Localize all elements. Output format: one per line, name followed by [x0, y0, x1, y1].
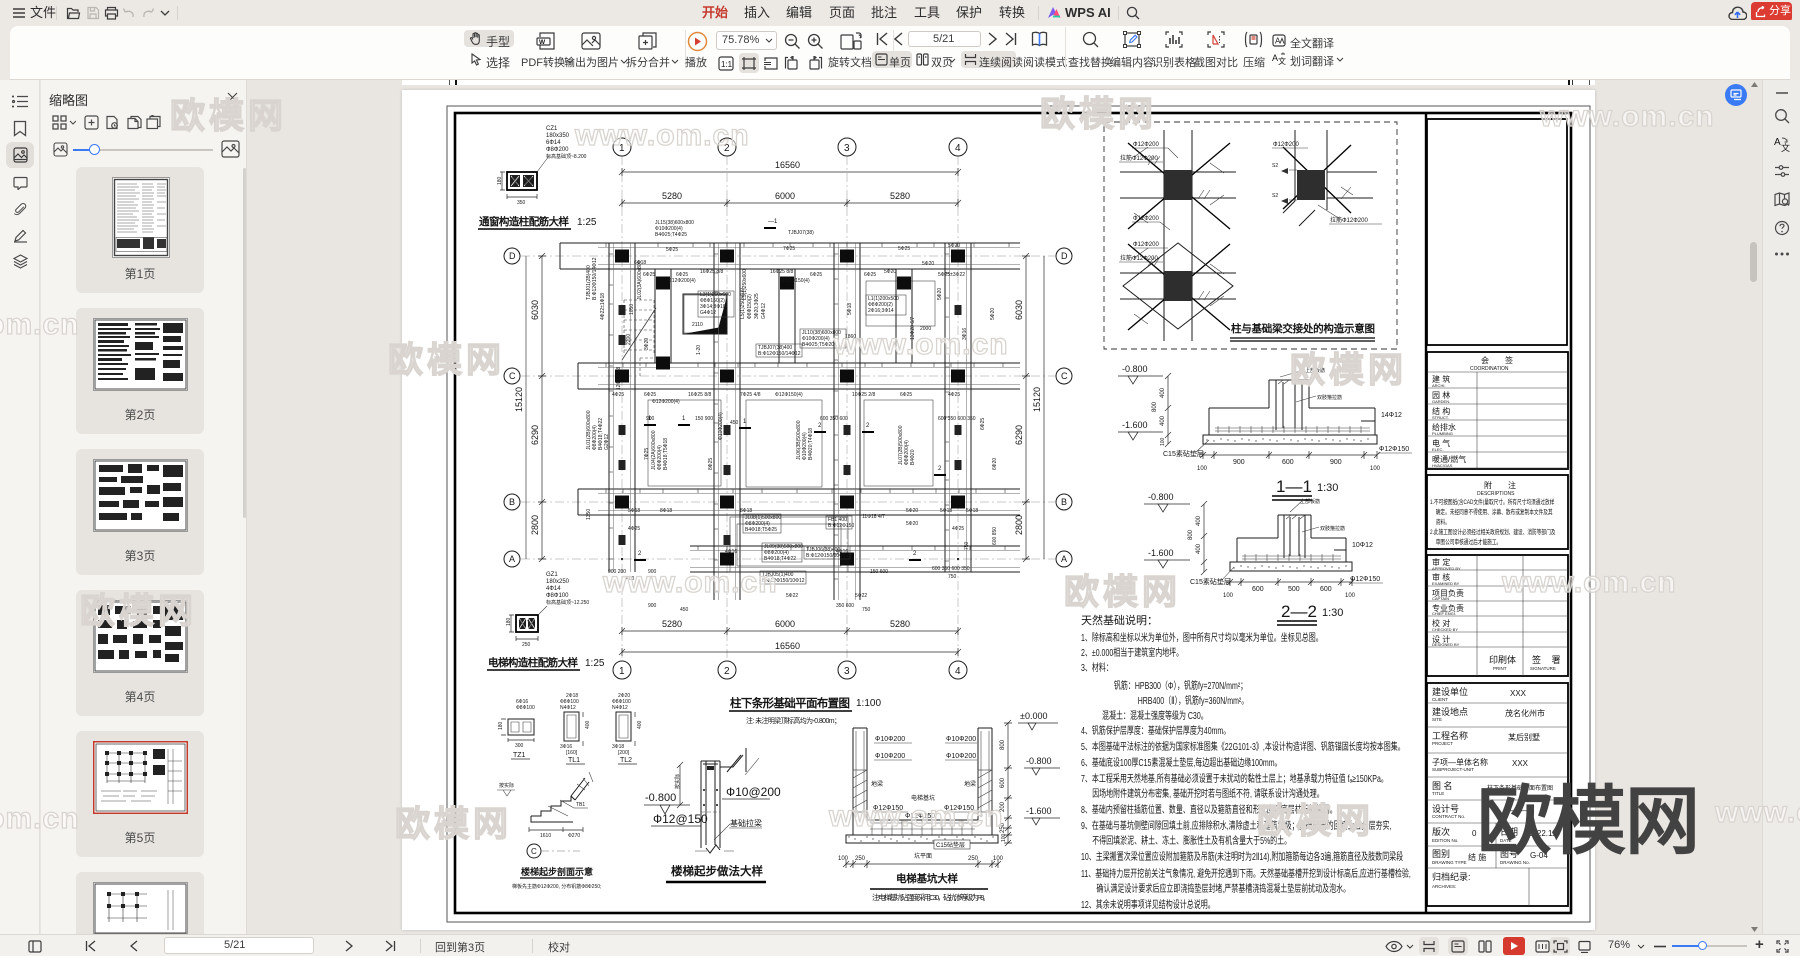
svg-text:上部板筋: 上部板筋 [1300, 498, 1320, 505]
svg-text:Ф10Ф200: Ф10Ф200 [946, 736, 976, 743]
title block: approval table [1427, 555, 1568, 676]
svg-text:9、在基础与基坑侧壁间隙回填土前,应排除积水,清除虚土和建筑: 9、在基础与基坑侧壁间隙回填土前,应排除积水,清除虚土和建筑垃圾；基础周围的回填… [1081, 819, 1392, 832]
svg-text:6Ф25: 6Ф25 [644, 392, 656, 398]
section 2-2 footing [1144, 492, 1383, 625]
svg-text:ELEC.: ELEC. [1432, 447, 1444, 452]
svg-text:B: B [509, 497, 515, 507]
svg-text:基础拉梁: 基础拉梁 [730, 818, 762, 828]
svg-text:5280: 5280 [662, 619, 682, 629]
bottom dimensions 5280 6000 5280 [619, 619, 961, 635]
svg-text:5280: 5280 [890, 191, 910, 201]
svg-text:TITLE: TITLE [1432, 791, 1444, 796]
thumbnails [76, 167, 204, 293]
svg-text:梯板先主筋Ф12Ф200, 分布钒筋Ф8Ф250;: 梯板先主筋Ф12Ф200, 分布钒筋Ф8Ф250; [512, 883, 601, 890]
svg-text:5Ф20: 5Ф20 [906, 521, 918, 527]
svg-text:5Ф25±3Ф22: 5Ф25±3Ф22 [938, 272, 965, 278]
natural foundation notes [1081, 613, 1411, 910]
axis bubbles left D C B A [504, 248, 520, 264]
svg-text:400: 400 [1196, 543, 1202, 554]
svg-text:4Ф14: 4Ф14 [546, 586, 561, 592]
svg-text:6290: 6290 [530, 425, 540, 445]
svg-text:Ф12Ф200: Ф12Ф200 [1273, 142, 1299, 148]
svg-text:4Ф16: 4Ф16 [725, 549, 737, 555]
svg-text:B: B [1061, 497, 1067, 507]
svg-text:XXX: XXX [1510, 689, 1527, 698]
svg-text:180: 180 [498, 721, 504, 730]
svg-text:印刷体: 印刷体 [1489, 654, 1516, 665]
svg-text:文: 文 [1781, 142, 1790, 152]
svg-text:3、材料：: 3、材料： [1081, 661, 1113, 674]
svg-text:6Ф20: 6Ф20 [992, 458, 998, 470]
svg-text:版次: 版次 [1432, 826, 1450, 837]
svg-text:注: 电梯基坑砧强度采用C30，砧抗渗等级为P8。: 注: 电梯基坑砧强度采用C30，砧抗渗等级为P8。 [872, 892, 990, 902]
svg-text:900 200: 900 200 [608, 569, 626, 575]
svg-text:900: 900 [648, 569, 657, 575]
svg-text:2: 2 [938, 466, 942, 472]
svg-text:3Ф16: 3Ф16 [962, 328, 968, 340]
svg-text:CAPTAIN: CAPTAIN [1432, 596, 1449, 601]
svg-text:Ф12Ф200(4): Ф12Ф200(4) [668, 278, 696, 284]
svg-text:Ф8Ф200: Ф8Ф200 [546, 147, 569, 153]
svg-text:APPROVED BY: APPROVED BY [1432, 566, 1461, 571]
svg-text:EDITION No.: EDITION No. [1432, 838, 1459, 843]
svg-text:工程名称: 工程名称 [1432, 730, 1468, 741]
vertical axis grid lines [621, 156, 623, 661]
svg-text:地梁: 地梁 [871, 780, 883, 788]
svg-text:2800: 2800 [1014, 515, 1024, 535]
svg-text:6Ф25: 6Ф25 [643, 272, 655, 278]
svg-text:150 600: 150 600 [870, 569, 888, 575]
svg-text:5Ф20: 5Ф20 [884, 269, 896, 275]
svg-text:2: 2 [818, 423, 822, 429]
svg-text:600 350 600: 600 350 600 [820, 416, 848, 422]
svg-text:-0.800: -0.800 [645, 792, 676, 804]
title: elevator pit detail [870, 872, 990, 902]
svg-text:SUBPROJECT-UNIT: SUBPROJECT-UNIT [1432, 767, 1474, 772]
svg-text:天然基础说明：: 天然基础说明： [1081, 613, 1158, 627]
title block: logo box [1427, 119, 1567, 345]
svg-text:6Ф14: 6Ф14 [546, 140, 561, 146]
svg-text:180: 180 [506, 617, 512, 626]
svg-text:拉筋Ф12Ф200: 拉筋Ф12Ф200 [1120, 254, 1158, 262]
svg-text:TB1: TB1 [576, 802, 585, 808]
svg-text:Ф10Ф200: Ф10Ф200 [875, 753, 905, 760]
svg-text:5Ф20: 5Ф20 [937, 288, 943, 300]
svg-text:3Ф20;3Ф25: 3Ф20;3Ф25 [754, 293, 760, 319]
svg-text:B4Ф20: B4Ф20 [910, 449, 916, 465]
svg-text:100: 100 [1160, 437, 1166, 446]
tie beam TL2 [612, 693, 643, 764]
svg-text:600: 600 [1282, 459, 1294, 466]
section cut marks in plan [634, 228, 946, 560]
svg-text:会签: 会签 [1481, 355, 1529, 365]
svg-text:8、基础内预留柱插筋位置、数量、直径以及箍筋直径和形式应与底: 8、基础内预留柱插筋位置、数量、直径以及箍筋直径和形式应与底层柱配筋相同。 [1081, 803, 1337, 816]
svg-text:400: 400 [585, 720, 591, 729]
svg-text:6Ф25: 6Ф25 [864, 272, 876, 278]
rebar tick marks along beams [606, 243, 1009, 591]
svg-text:180x350: 180x350 [546, 133, 570, 139]
svg-text:A: A [1061, 554, 1067, 564]
svg-text:2: 2 [913, 551, 917, 557]
svg-text:文: 文 [1278, 56, 1286, 65]
tabs [702, 0, 728, 26]
right dimension chain [1014, 253, 1030, 562]
PDF convert [536, 31, 558, 51]
left dimension chain 6030 6290 2800 [530, 253, 546, 562]
svg-text:10、主梁搬置次梁位置应设附加箍筋及吊筋(未注明时为2Ⅱ14: 10、主梁搬置次梁位置应设附加箍筋及吊筋(未注明时为2Ⅱ14),附加箍筋每边各3… [1081, 850, 1403, 863]
svg-text:1350: 1350 [586, 509, 592, 520]
svg-text:4Ф25: 4Ф25 [952, 526, 964, 532]
dashed box: column-foundation beam connection details [1104, 122, 1397, 349]
svg-text:双肢箍拉筋: 双肢箍拉筋 [1317, 394, 1342, 401]
svg-text:±0.000: ±0.000 [1020, 711, 1047, 721]
svg-text:800: 800 [1000, 739, 1006, 750]
svg-text:4: 4 [955, 666, 961, 677]
svg-text:混凝土：混凝土强度等级为 C30。: 混凝土：混凝土强度等级为 C30。 [1102, 709, 1208, 722]
svg-text:PRINT: PRINT [1493, 666, 1507, 671]
svg-text:400: 400 [1160, 415, 1166, 426]
svg-text:4Ф25: 4Ф25 [628, 526, 640, 532]
svg-text:坑平面: 坑平面 [914, 852, 932, 860]
svg-text:1: 1 [619, 143, 625, 154]
svg-text:Ф12Ф200(4): Ф12Ф200(4) [652, 399, 680, 405]
edit content [1123, 31, 1141, 48]
svg-text:DRAWING TYPE: DRAWING TYPE [1432, 860, 1467, 865]
svg-text:G4Ф12: G4Ф12 [761, 303, 767, 319]
svg-text:地梁: 地梁 [964, 780, 976, 788]
compress [1244, 31, 1263, 48]
svg-text:因场地附件建筑分布密集, 基础开挖时若与图纸不符, 请联系设: 因场地附件建筑分布密集, 基础开挖时若与图纸不符, 请联系设计沟通处理。 [1092, 787, 1324, 800]
svg-text:8Ф18: 8Ф18 [660, 508, 672, 514]
svg-text:100: 100 [1001, 833, 1007, 842]
svg-text:ARCHIVES:: ARCHIVES: [1432, 884, 1456, 889]
svg-text:C: C [509, 371, 516, 381]
top dimension 16560 [619, 160, 961, 176]
svg-text:4Ф25: 4Ф25 [612, 392, 624, 398]
svg-text:200: 200 [1000, 801, 1006, 812]
horizontal axis grid lines [521, 255, 1055, 257]
svg-text:400: 400 [626, 576, 635, 582]
svg-text:归档纪录:: 归档纪录: [1432, 871, 1471, 882]
screenshot compare [1207, 31, 1225, 48]
svg-text:CZ1: CZ1 [546, 126, 558, 132]
svg-text:100: 100 [1345, 593, 1356, 599]
svg-text:标高基础顶~8.200: 标高基础顶~8.200 [546, 153, 587, 160]
title block column divider [1425, 113, 1427, 913]
svg-text:6Ф25: 6Ф25 [980, 418, 986, 430]
svg-text:6290: 6290 [1014, 425, 1024, 445]
svg-text:1: 1 [619, 666, 625, 677]
stair flight dashed outline [622, 300, 656, 376]
title block: project info table [1427, 683, 1568, 906]
intermediate beam right wing [896, 269, 912, 363]
svg-text:Ф270: Ф270 [568, 833, 580, 839]
translate group [1272, 34, 1286, 47]
svg-text:附注: 附注 [1484, 480, 1532, 490]
svg-text:B4Ф18;T5Ф18: B4Ф18;T5Ф18 [663, 438, 669, 470]
svg-text:-1.600: -1.600 [1122, 420, 1148, 430]
svg-text:L5(1)250x600: L5(1)250x600 [742, 269, 748, 300]
svg-text:800: 800 [1188, 529, 1194, 540]
svg-text:A: A [1774, 137, 1781, 148]
svg-text:100: 100 [1223, 593, 1234, 599]
svg-text:柱下条形基础平面布置图: 柱下条形基础平面布置图 [730, 696, 850, 710]
svg-text:1: 1 [682, 416, 686, 422]
svg-text:5Ф22: 5Ф22 [855, 593, 867, 599]
svg-text:6000: 6000 [775, 619, 795, 629]
share button [1751, 2, 1792, 22]
svg-text:5Ф18: 5Ф18 [847, 303, 853, 315]
svg-text:600 350 600 350: 600 350 600 350 [938, 416, 976, 422]
column detail GZ1 (elevator constructional column) [506, 572, 589, 648]
svg-text:5Ф18: 5Ф18 [940, 508, 952, 514]
elevator pit inner lines [737, 524, 841, 566]
svg-text:7、本工程采用天然地基,所有基础必须设置于未扰动的黏性土层上: 7、本工程采用天然地基,所有基础必须设置于未扰动的黏性土层上；地基承载力特征值 … [1081, 772, 1388, 785]
svg-text:C15砧垫层: C15砧垫层 [936, 841, 965, 849]
plan title [729, 696, 881, 725]
svg-text:16Ф25 8/8: 16Ф25 8/8 [700, 269, 723, 275]
title: elevator column detail [487, 656, 605, 670]
svg-text:800: 800 [1152, 401, 1158, 412]
svg-text:楼梯起步做法大样: 楼梯起步做法大样 [671, 864, 764, 878]
cloud upload [1728, 4, 1747, 21]
svg-text:6Ф25: 6Ф25 [810, 272, 822, 278]
svg-text:10Ф25 2/8: 10Ф25 2/8 [852, 392, 875, 398]
svg-text:900: 900 [1233, 459, 1245, 466]
svg-text:上部板筋: 上部板筋 [1305, 367, 1325, 374]
play [687, 31, 708, 52]
svg-text:400: 400 [1160, 387, 1166, 398]
zoom out / in [784, 33, 801, 50]
svg-text:13Ф20 6/7: 13Ф20 6/7 [910, 317, 916, 340]
inner room rectangles [684, 295, 726, 333]
strip foundation beams: D C B A rows [598, 243, 1020, 269]
svg-text:按实际: 按实际 [674, 774, 681, 789]
svg-text:柱与基础梁交接处的构造示意图: 柱与基础梁交接处的构造示意图 [1231, 322, 1375, 335]
svg-text:1860: 1860 [845, 334, 856, 340]
svg-text:5Ф25: 5Ф25 [898, 246, 910, 252]
svg-text:180: 180 [497, 176, 503, 185]
axis bubbles top 1-4 [613, 138, 631, 156]
svg-text:250: 250 [855, 856, 866, 862]
svg-text:4Ф16: 4Ф16 [836, 549, 848, 555]
svg-text:8Ф18: 8Ф18 [740, 508, 752, 514]
bottom dimension 16560 [619, 641, 961, 656]
svg-text:2800: 2800 [530, 515, 540, 535]
svg-text:楼梯起步剖面示意: 楼梯起步剖面示意 [521, 866, 593, 877]
title block: coordination table [1427, 352, 1568, 469]
svg-text:建设单位: 建设单位 [1432, 686, 1468, 697]
svg-text:茂名化州市: 茂名化州市 [1505, 708, 1545, 718]
svg-text:15120: 15120 [514, 387, 524, 412]
zoom group [716, 31, 777, 50]
svg-text:2、±0.000相当于建筑室内地坪。: 2、±0.000相当于建筑室内地坪。 [1081, 646, 1183, 659]
svg-text:1、除标高和坐标以米为单位外，图中所有尺寸均以毫米为单位。坐: 1、除标高和坐标以米为单位外，图中所有尺寸均以毫米为单位。坐标见总图。 [1081, 631, 1323, 644]
svg-text:750: 750 [964, 541, 970, 550]
svg-text:GZ1: GZ1 [546, 572, 558, 578]
title block: descriptions box [1427, 475, 1568, 906]
svg-text:HVAC/GAS: HVAC/GAS [1432, 463, 1453, 468]
svg-text:2: 2 [866, 423, 870, 429]
svg-text:G2Ф12: G2Ф12 [604, 434, 610, 450]
svg-text:CHIEF ENGI.: CHIEF ENGI. [1432, 611, 1456, 616]
svg-text:GARDEN.: GARDEN. [1432, 399, 1450, 404]
svg-text:B4Ф25;T5Ф20: B4Ф25;T5Ф20 [802, 342, 834, 348]
svg-text:600 350 600 350: 600 350 600 350 [932, 566, 970, 572]
svg-text:500: 500 [1288, 586, 1300, 593]
svg-text:B4Ф18;T5Ф25: B4Ф18;T5Ф25 [745, 527, 777, 533]
svg-text:15120: 15120 [1032, 387, 1042, 412]
svg-text:1:100: 1:100 [856, 698, 881, 709]
svg-text:6030: 6030 [1014, 300, 1024, 320]
svg-text:1050: 1050 [629, 304, 635, 315]
svg-text:[160]: [160] [566, 750, 578, 756]
svg-text:900: 900 [1330, 459, 1342, 466]
svg-text:Ф12Ф150: Ф12Ф150 [873, 805, 903, 812]
svg-text:1—1: 1—1 [1276, 477, 1312, 496]
svg-text:JL02(3A)600x800: JL02(3A)600x800 [637, 260, 643, 300]
right side [1385, 940, 1403, 953]
leader boxes around some labels [698, 291, 906, 584]
svg-text:Ф12Ф150: Ф12Ф150 [1379, 446, 1409, 453]
svg-text:Ф12Ф200: Ф12Ф200 [1133, 216, 1159, 222]
svg-text:CHECKED BY: CHECKED BY [1432, 627, 1458, 632]
axis bubbles bottom 1-4 [613, 661, 631, 679]
svg-text:1610: 1610 [540, 833, 551, 839]
rotated beam label texts [586, 257, 998, 550]
svg-text:注: 未注明梁顶标高均为-0.800m；: 注: 未注明梁顶标高均为-0.800m； [746, 716, 841, 725]
svg-text:3: 3 [844, 143, 850, 154]
svg-text:250: 250 [522, 642, 531, 648]
svg-text:确认满足设计要求后应立即浇捣垫层封堵,严禁基槽浇捣混凝土垫层: 确认满足设计要求后应立即浇捣垫层封堵,严禁基槽浇捣混凝土垫层前扰动及泡水。 [1096, 882, 1350, 895]
svg-text:2000: 2000 [920, 326, 931, 332]
svg-text:750: 750 [948, 574, 957, 580]
svg-text:Ф12Ф150(4): Ф12Ф150(4) [782, 278, 810, 284]
detail: corner intersection top-right [1283, 130, 1377, 226]
column detail CZ1 (window constructional column) [497, 126, 587, 206]
dashed box title [1230, 322, 1375, 341]
svg-text:HRB400（Ⅱ），钒筋fy=360N/mm²。: HRB400（Ⅱ），钒筋fy=360N/mm²。 [1138, 694, 1249, 707]
svg-text:拉筋Ф12Ф200: 拉筋Ф12Ф200 [1120, 154, 1158, 162]
svg-text:100: 100 [838, 856, 849, 862]
svg-text:-0.800: -0.800 [1026, 756, 1052, 766]
svg-text:C: C [531, 847, 537, 856]
svg-text:16Ф25 8/8: 16Ф25 8/8 [688, 392, 711, 398]
svg-text:建设地点: 建设地点 [1432, 706, 1468, 717]
svg-text:PLUMBING: PLUMBING [1432, 431, 1453, 436]
svg-text:5Ф25: 5Ф25 [666, 247, 678, 253]
svg-text:5、本图基础平法标注的依据为国家标准图集《22G101-3》: 5、本图基础平法标注的依据为国家标准图集《22G101-3》,本设计构造详图、钒… [1081, 740, 1405, 753]
svg-text:B:Ф12Ф150/14Ф12: B:Ф12Ф150/14Ф12 [592, 257, 598, 300]
svg-text:审图公司审核通过后才能施工。: 审图公司审核通过后才能施工。 [1436, 537, 1501, 546]
svg-text:5Ф20: 5Ф20 [948, 243, 960, 249]
svg-text:B4Ф25;T4Ф25: B4Ф25;T4Ф25 [655, 232, 687, 238]
intermediate beam between axes (stair shaft wall) [655, 269, 671, 363]
svg-text:Ф10Ф200: Ф10Ф200 [946, 753, 976, 760]
title: stair start practice [666, 864, 766, 882]
svg-text:150 900: 150 900 [695, 416, 713, 422]
svg-text:2200: 2200 [626, 334, 632, 345]
svg-text:双肢箍拉筋: 双肢箍拉筋 [1320, 525, 1345, 532]
svg-text:7Ф25 4/8: 7Ф25 4/8 [740, 392, 761, 398]
svg-text:B:Ф12Ф150: B:Ф12Ф150 [828, 523, 854, 529]
find/replace [1082, 31, 1099, 48]
svg-text:-0.800: -0.800 [1122, 364, 1148, 374]
svg-text:100: 100 [1370, 466, 1381, 472]
svg-text:100: 100 [993, 856, 1004, 862]
svg-text:12Ф18 4/8: 12Ф18 4/8 [616, 367, 622, 390]
svg-text:C: C [1061, 371, 1068, 381]
svg-text:Ф10Ф200(4): Ф10Ф200(4) [718, 412, 724, 440]
svg-text:PROJECT: PROJECT [1432, 741, 1453, 746]
svg-text:D: D [1061, 251, 1068, 261]
svg-text:1:30: 1:30 [1317, 482, 1338, 494]
svg-text:SIGNATURE: SIGNATURE [1530, 666, 1556, 671]
strip foundation beams: axis 1 2 3 4 columns [609, 243, 635, 572]
svg-text:750: 750 [862, 607, 871, 613]
svg-text:100: 100 [1197, 466, 1208, 472]
svg-text:16Ф25 8/8: 16Ф25 8/8 [770, 269, 793, 275]
stair start section sketch [497, 772, 593, 858]
sheet outer thin frame [447, 106, 1590, 922]
beam inner face lines [598, 243, 1020, 600]
svg-text:N4Ф12: N4Ф12 [560, 705, 576, 711]
svg-text:250: 250 [1000, 822, 1006, 833]
svg-text:S2: S2 [1272, 193, 1278, 199]
svg-text:Ф12Ф150(4): Ф12Ф150(4) [775, 392, 803, 398]
svg-text:2: 2 [638, 551, 642, 557]
svg-text:6、基础底设100厚C15素混凝土垫层,每边超出基础边缘10: 6、基础底设100厚C15素混凝土垫层,每边超出基础边缘100mm。 [1081, 756, 1282, 769]
tie beam TL1 [560, 693, 591, 764]
svg-text:TL2: TL2 [620, 757, 632, 764]
svg-text:1:25: 1:25 [577, 217, 597, 228]
beam overhang left of axis 1 at rows D C B [560, 243, 609, 269]
svg-text:12、其余未说明事项详见结构设计总说明。: 12、其余未说明事项详见结构设计总说明。 [1081, 898, 1215, 911]
svg-text:CLIENT: CLIENT [1432, 697, 1448, 702]
svg-text:4: 4 [955, 143, 961, 154]
svg-text:8Ф25: 8Ф25 [708, 458, 714, 470]
svg-text:6Ф25: 6Ф25 [900, 392, 912, 398]
svg-text:通窗构造柱配筋大样: 通窗构造柱配筋大样 [479, 215, 570, 228]
svg-text:2110: 2110 [692, 322, 703, 328]
svg-text:STRUCT.: STRUCT. [1432, 415, 1449, 420]
svg-text:2—2: 2—2 [1281, 602, 1317, 621]
svg-text:450: 450 [730, 420, 739, 426]
svg-text:350: 350 [517, 200, 526, 206]
svg-text:16560: 16560 [775, 160, 800, 170]
solid black wedge (section cut of stair landing beam) [717, 296, 727, 333]
svg-text:5Ф18: 5Ф18 [966, 508, 978, 514]
top dimensions 5280 6000 5280 [619, 191, 961, 207]
svg-text:Ф12Ф150: Ф12Ф150 [944, 805, 974, 812]
svg-text:1.不可按图纸(含CAD文件)量取尺寸。所有尺寸均须通过放样: 1.不可按图纸(含CAD文件)量取尺寸。所有尺寸均须通过放样 [1430, 497, 1555, 506]
svg-text:400: 400 [1196, 515, 1202, 526]
svg-text:10Ф12: 10Ф12 [1352, 542, 1373, 549]
svg-text:—1: —1 [768, 219, 778, 225]
svg-text:4Ф25: 4Ф25 [948, 392, 960, 398]
svg-text:2Ф16;3Ф14: 2Ф16;3Ф14 [868, 308, 894, 314]
extra leader dots at axis intersections [621, 255, 959, 560]
svg-text:180x250: 180x250 [546, 579, 570, 585]
svg-text:C15素砧垫层: C15素砧垫层 [1190, 577, 1231, 586]
svg-text:DESCRIPTIONS: DESCRIPTIONS [1477, 491, 1515, 497]
svg-text:11Ф18 4/7: 11Ф18 4/7 [862, 514, 885, 520]
svg-text:600 850: 600 850 [992, 527, 998, 545]
svg-text:图 名: 图 名 [1432, 780, 1453, 791]
svg-text:4Ф22±1Ф18: 4Ф22±1Ф18 [600, 293, 606, 320]
svg-text:设计号: 设计号 [1432, 803, 1459, 814]
svg-text:-1.600: -1.600 [1148, 548, 1174, 558]
